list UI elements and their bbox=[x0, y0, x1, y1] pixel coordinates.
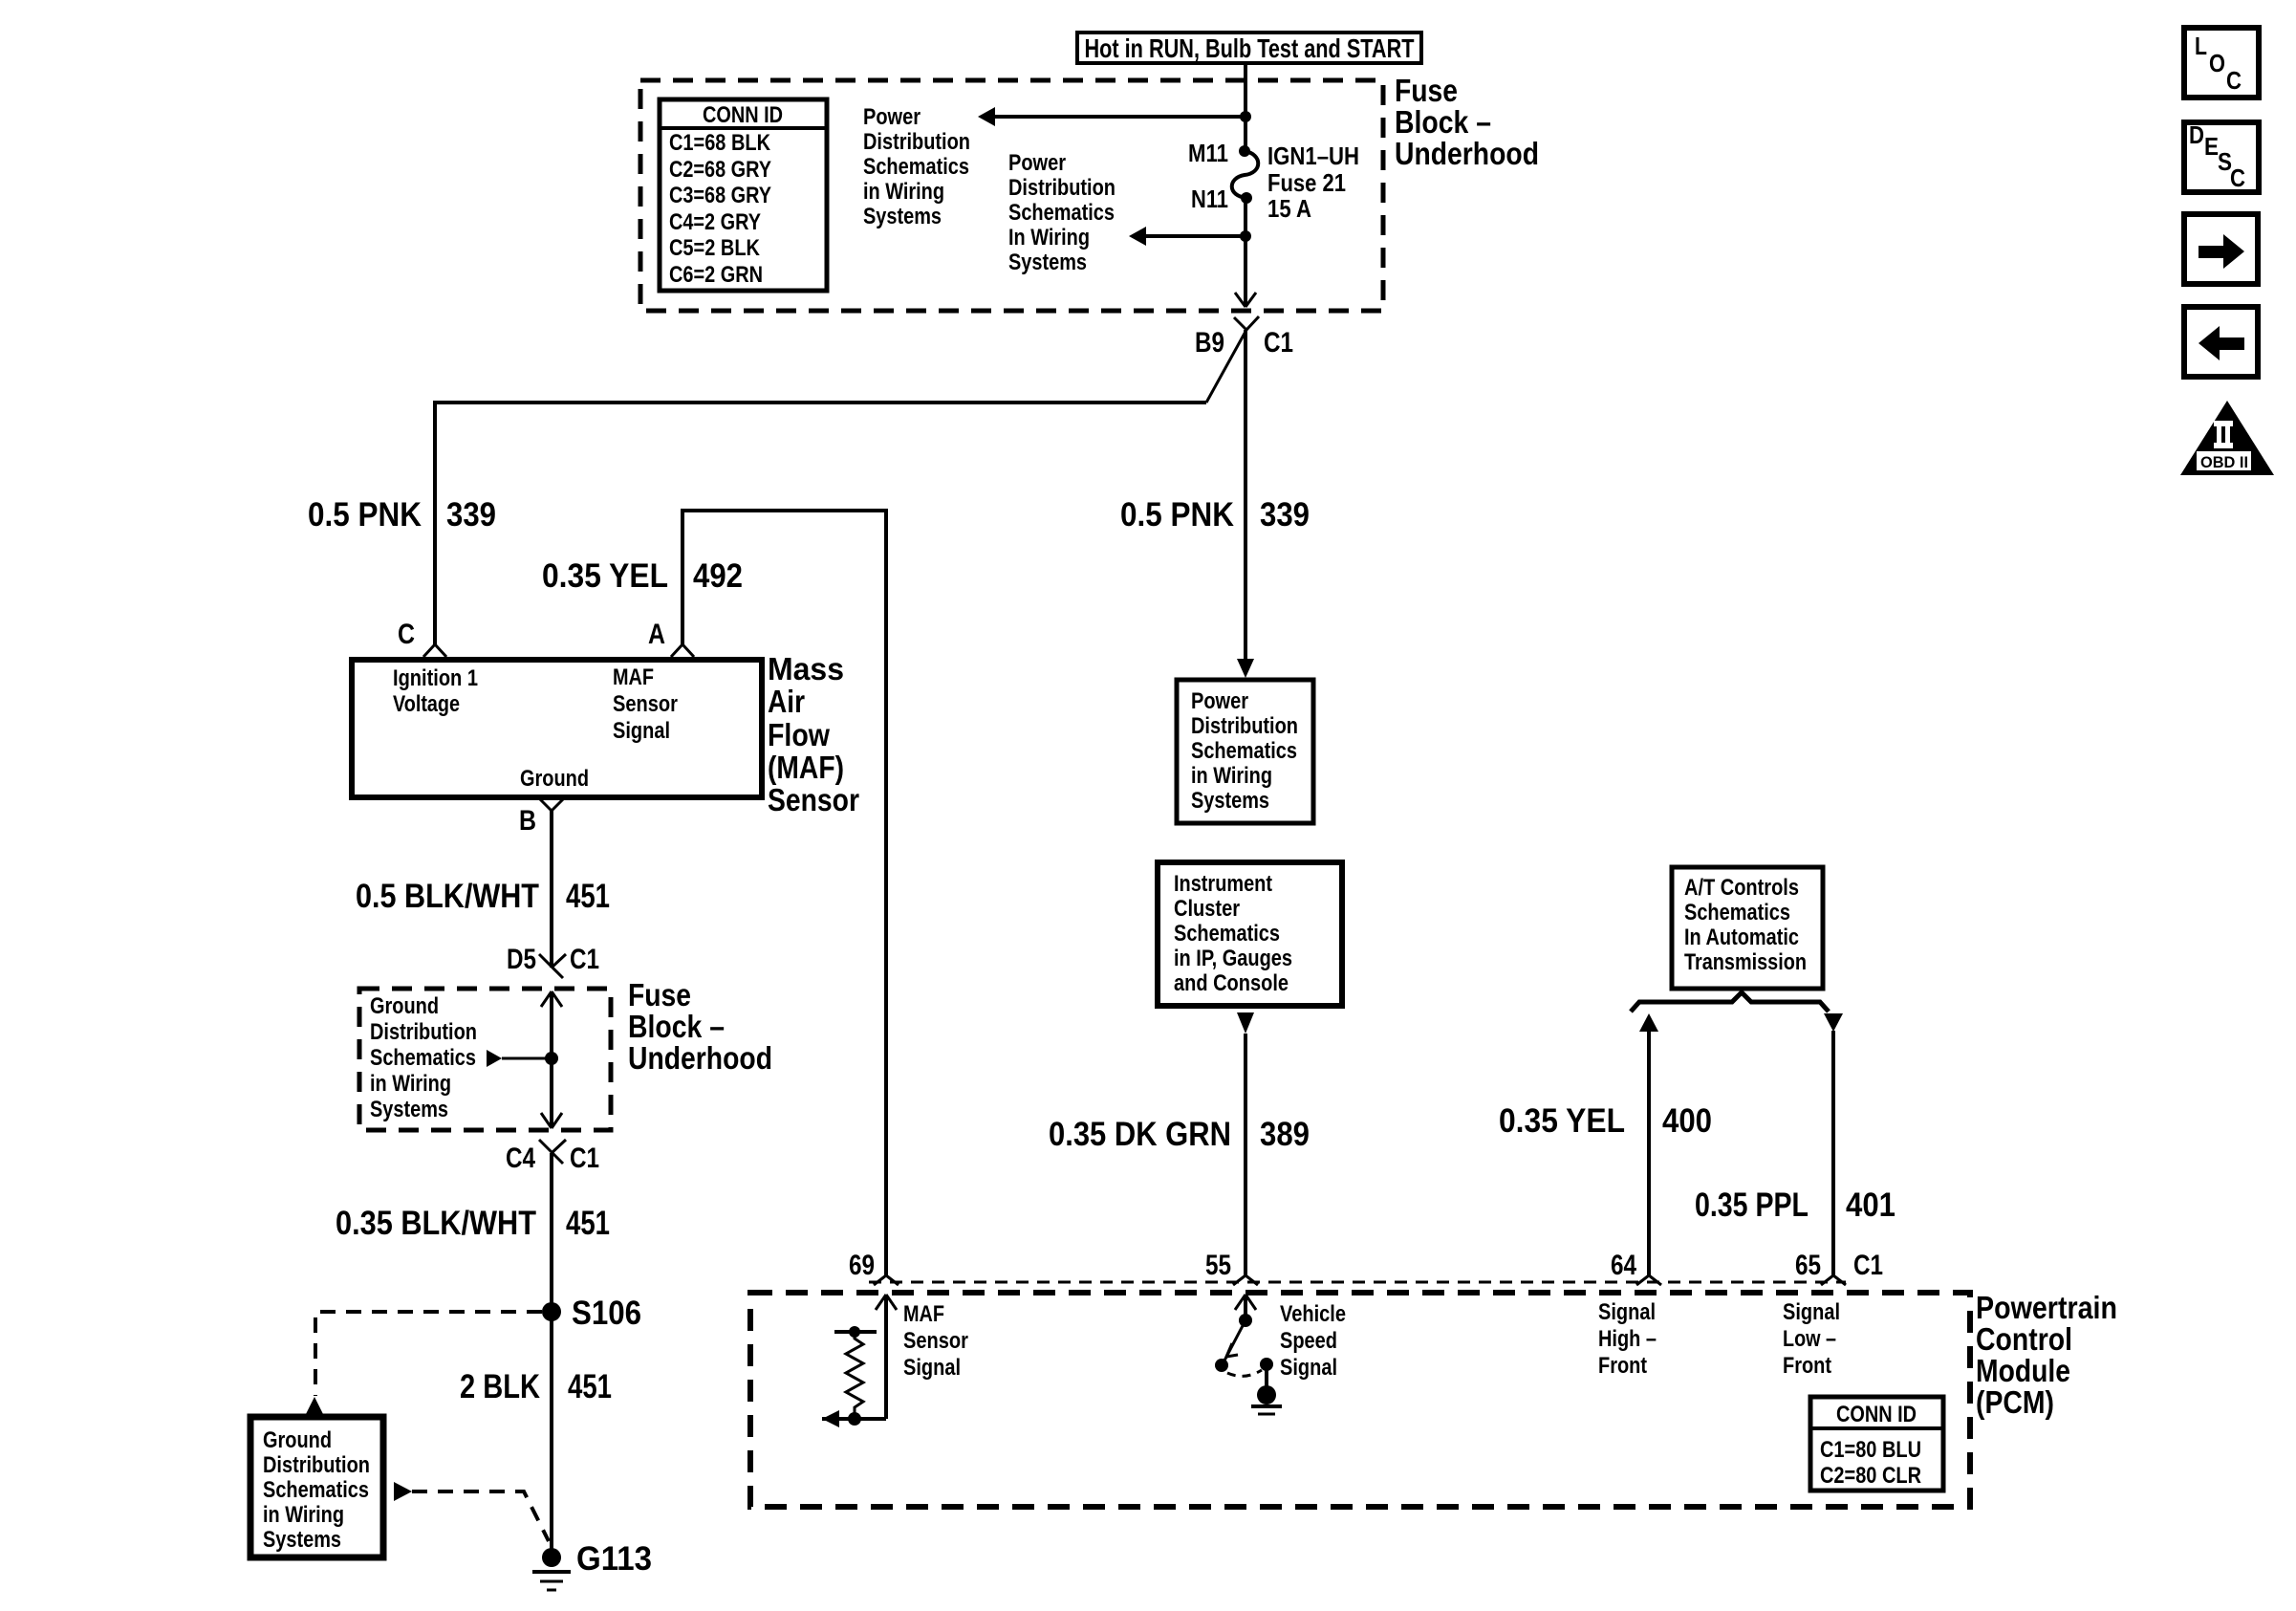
CONN ID table (fuse block) bbox=[660, 99, 827, 291]
svg-text:A/T Controls: A/T Controls bbox=[1684, 875, 1799, 901]
connector B9 / C1 bbox=[1195, 316, 1293, 403]
svg-text:Ground: Ground bbox=[520, 766, 589, 792]
svg-text:Power: Power bbox=[1191, 688, 1248, 714]
svg-text:C1=68 BLK: C1=68 BLK bbox=[669, 130, 771, 156]
label: Fuse Block - Underhood bbox=[1395, 73, 1539, 171]
label: 0.5 PNK 339 (middle) bbox=[1120, 496, 1310, 533]
wire: main vertical from Hot box through fuse block bbox=[1244, 63, 1247, 307]
svg-text:0.5 PNK: 0.5 PNK bbox=[1120, 496, 1234, 533]
svg-text:0.35 BLK/WHT: 0.35 BLK/WHT bbox=[336, 1205, 536, 1242]
svg-text:Schematics: Schematics bbox=[863, 154, 969, 180]
svg-text:65: 65 bbox=[1795, 1250, 1821, 1281]
svg-text:C3=68 GRY: C3=68 GRY bbox=[669, 183, 771, 208]
svg-text:492: 492 bbox=[693, 557, 743, 595]
svg-text:Power: Power bbox=[1008, 150, 1066, 176]
svg-text:Distribution: Distribution bbox=[863, 129, 970, 155]
svg-text:L: L bbox=[2195, 32, 2207, 60]
pin 65 connector chevron + C1 bbox=[1795, 1250, 1883, 1285]
svg-text:Schematics: Schematics bbox=[1008, 200, 1115, 226]
text: Vehicle Speed Signal bbox=[1280, 1301, 1346, 1381]
svg-text:Distribution: Distribution bbox=[263, 1452, 370, 1478]
svg-text:M11: M11 bbox=[1188, 139, 1228, 167]
svg-text:339: 339 bbox=[1260, 496, 1310, 533]
svg-text:Flow: Flow bbox=[768, 717, 830, 752]
svg-text:Distribution: Distribution bbox=[370, 1019, 477, 1045]
label: 0.35 YEL 492 bbox=[542, 557, 743, 595]
pin C connector chevron bbox=[398, 619, 446, 657]
wire: 0.5 BLK/WHT 451 from B to D5 bbox=[550, 811, 553, 968]
svg-text:D5: D5 bbox=[507, 944, 536, 975]
svg-text:OBD II: OBD II bbox=[2200, 453, 2248, 471]
label: IGN1-UH Fuse 21 15 A bbox=[1267, 142, 1359, 223]
svg-text:Signal: Signal bbox=[613, 718, 670, 744]
svg-text:Fuse: Fuse bbox=[1395, 73, 1458, 108]
svg-text:Signal: Signal bbox=[903, 1355, 961, 1381]
svg-text:Signal: Signal bbox=[1598, 1299, 1656, 1325]
svg-text:Signal: Signal bbox=[1280, 1355, 1337, 1381]
fuse block underhood dashed box (lower) bbox=[359, 989, 611, 1130]
wire: 0.35 YEL 400 pin 64 bbox=[1639, 1013, 1658, 1275]
MAF sensor signal input (pin 69): open arrow, wire, resistor bbox=[855, 1295, 897, 1419]
svg-text:69: 69 bbox=[849, 1250, 875, 1281]
svg-text:Schematics: Schematics bbox=[263, 1477, 369, 1503]
svg-text:0.35 YEL: 0.35 YEL bbox=[1499, 1102, 1625, 1140]
svg-text:B: B bbox=[519, 805, 536, 837]
svg-text:C2=68 GRY: C2=68 GRY bbox=[669, 157, 771, 183]
resistor (MAF pull-up) bbox=[822, 1326, 877, 1427]
svg-text:A: A bbox=[648, 619, 665, 650]
svg-text:15 A: 15 A bbox=[1267, 194, 1311, 223]
wire: arrow to Power Distribution (lower) bbox=[1129, 227, 1251, 246]
svg-text:451: 451 bbox=[566, 878, 610, 915]
svg-text:339: 339 bbox=[446, 496, 496, 533]
MAF sensor box bbox=[352, 660, 762, 797]
fuse IGN1-UH Fuse 21 15A bbox=[1232, 145, 1259, 204]
svg-text:C6=2 GRN: C6=2 GRN bbox=[669, 262, 763, 288]
PCM connector thin dashed line bbox=[869, 1281, 1846, 1284]
svg-text:B9: B9 bbox=[1195, 327, 1224, 359]
text: Signal Low - Front bbox=[1783, 1299, 1840, 1379]
label: 0.5 PNK 339 (left) bbox=[308, 496, 496, 533]
svg-text:C5=2 BLK: C5=2 BLK bbox=[669, 235, 761, 261]
fuse block underhood dashed box bbox=[640, 80, 1383, 311]
text: Power Distribution Schematics In Wiring Systems (right) bbox=[1008, 150, 1116, 275]
icon: DESC box bbox=[2184, 120, 2259, 192]
svg-text:Sensor: Sensor bbox=[613, 691, 678, 717]
svg-text:Power: Power bbox=[863, 104, 921, 130]
pin 55 connector chevron bbox=[1205, 1250, 1258, 1285]
svg-text:Schematics: Schematics bbox=[1684, 900, 1790, 925]
open arrowhead at fuse block exit bbox=[1235, 293, 1256, 307]
text: MAF Sensor Signal (PCM) bbox=[903, 1301, 968, 1381]
Ground Distribution Schematics box (bottom left) bbox=[250, 1417, 383, 1557]
label: 0.35 BLK/WHT 451 bbox=[336, 1205, 610, 1242]
wire: arrow to Power Distribution (upper) bbox=[978, 107, 1251, 126]
svg-text:Systems: Systems bbox=[863, 204, 942, 229]
wire: 0.35 YEL 492 from A up and over to pin 69 bbox=[682, 511, 886, 1275]
svg-text:C1: C1 bbox=[570, 1143, 599, 1174]
svg-text:C: C bbox=[2226, 66, 2242, 95]
text: Signal High - Front bbox=[1598, 1299, 1657, 1379]
svg-text:Front: Front bbox=[1598, 1353, 1647, 1379]
pin 69 connector chevron bbox=[849, 1250, 899, 1285]
label: Fuse Block - Underhood (lower) bbox=[628, 977, 772, 1076]
svg-text:Control: Control bbox=[1976, 1321, 2072, 1357]
svg-text:and Console: and Console bbox=[1174, 970, 1289, 996]
wire: 0.35 BLK/WHT 451 from C4 to S106 bbox=[550, 1153, 553, 1557]
svg-text:Ignition 1: Ignition 1 bbox=[393, 665, 478, 691]
svg-text:in Wiring: in Wiring bbox=[370, 1071, 451, 1097]
label: Mass Air Flow (MAF) Sensor bbox=[768, 651, 859, 817]
svg-text:0.35 PPL: 0.35 PPL bbox=[1695, 1186, 1809, 1224]
wire: 0.35 DK GRN 389 from cluster to pin 55 bbox=[1237, 1012, 1254, 1275]
svg-text:(MAF): (MAF) bbox=[768, 750, 844, 785]
svg-text:0.35 YEL: 0.35 YEL bbox=[542, 557, 668, 595]
svg-text:55: 55 bbox=[1205, 1250, 1231, 1281]
svg-text:O: O bbox=[2209, 49, 2225, 77]
svg-text:in Wiring: in Wiring bbox=[863, 179, 944, 205]
reference arrow to ground distribution (inside fuse block) bbox=[487, 1050, 558, 1067]
CONN ID table (PCM) bbox=[1810, 1397, 1943, 1491]
icon: back arrow box bbox=[2184, 307, 2258, 377]
pin 64 connector chevron bbox=[1611, 1250, 1661, 1285]
label: 0.35 DK GRN 389 bbox=[1049, 1116, 1310, 1153]
svg-text:451: 451 bbox=[568, 1368, 612, 1405]
svg-text:in Wiring: in Wiring bbox=[263, 1502, 344, 1528]
svg-text:Sensor: Sensor bbox=[903, 1328, 968, 1354]
wire: 0.35 PPL 401 pin 65 bbox=[1824, 1013, 1843, 1275]
svg-text:C1=80 BLU: C1=80 BLU bbox=[1820, 1437, 1921, 1463]
icon: forward arrow box bbox=[2184, 214, 2258, 284]
svg-text:C: C bbox=[398, 619, 415, 650]
svg-text:MAF: MAF bbox=[613, 664, 654, 690]
svg-text:Fuse 21: Fuse 21 bbox=[1267, 168, 1346, 197]
svg-text:Distribution: Distribution bbox=[1191, 713, 1298, 739]
wire: 0.5 PNK 339 branch to MAF (horizontal + vertical) bbox=[435, 403, 1206, 644]
label: 0.35 PPL 401 bbox=[1695, 1186, 1895, 1224]
svg-text:C1: C1 bbox=[570, 944, 599, 975]
connector D5 / C1 bbox=[507, 944, 599, 978]
svg-text:451: 451 bbox=[566, 1205, 610, 1242]
svg-text:389: 389 bbox=[1260, 1116, 1310, 1153]
svg-text:Speed: Speed bbox=[1280, 1328, 1337, 1354]
A/T Controls Schematics box bbox=[1672, 867, 1823, 989]
svg-text:IGN1–UH: IGN1–UH bbox=[1267, 142, 1359, 170]
svg-text:Schematics: Schematics bbox=[370, 1045, 476, 1071]
svg-text:MAF: MAF bbox=[903, 1301, 944, 1327]
svg-text:Systems: Systems bbox=[370, 1097, 448, 1122]
svg-text:Powertrain: Powertrain bbox=[1976, 1290, 2117, 1325]
Instrument Cluster Schematics box bbox=[1158, 862, 1342, 1006]
splice S106 bbox=[542, 1295, 641, 1332]
svg-text:Systems: Systems bbox=[263, 1527, 341, 1553]
svg-text:2 BLK: 2 BLK bbox=[460, 1368, 540, 1405]
label: 2 BLK 451 bbox=[460, 1368, 612, 1405]
svg-text:0.5 BLK/WHT: 0.5 BLK/WHT bbox=[356, 878, 539, 915]
pin B connector chevron bbox=[519, 799, 563, 837]
svg-text:(PCM): (PCM) bbox=[1976, 1384, 2054, 1420]
icon: LOC box bbox=[2184, 28, 2259, 98]
label: 0.35 YEL 400 bbox=[1499, 1102, 1712, 1140]
PCM dashed box bbox=[750, 1293, 1970, 1507]
svg-text:0.5 PNK: 0.5 PNK bbox=[308, 496, 422, 533]
svg-text:S106: S106 bbox=[572, 1295, 641, 1332]
Power Distribution Schematics box (middle) bbox=[1177, 680, 1313, 823]
vehicle speed signal input (pin 55): open arrow + switch bbox=[1215, 1295, 1282, 1414]
svg-text:64: 64 bbox=[1611, 1250, 1636, 1281]
svg-text:E: E bbox=[2204, 132, 2219, 161]
svg-text:Low –: Low – bbox=[1783, 1326, 1836, 1352]
svg-text:Block –: Block – bbox=[628, 1009, 725, 1044]
svg-text:CONN ID: CONN ID bbox=[1836, 1402, 1917, 1427]
svg-text:Sensor: Sensor bbox=[768, 782, 859, 817]
svg-text:in IP, Gauges: in IP, Gauges bbox=[1174, 946, 1292, 971]
svg-text:C4=2 GRY: C4=2 GRY bbox=[669, 209, 761, 235]
svg-text:400: 400 bbox=[1662, 1102, 1712, 1140]
text: Power Distribution Schematics in Wiring Systems (left) bbox=[863, 104, 970, 229]
svg-text:Module: Module bbox=[1976, 1353, 2070, 1388]
svg-text:Ground: Ground bbox=[370, 993, 439, 1019]
svg-text:Schematics: Schematics bbox=[1191, 738, 1297, 764]
label: 0.5 BLK/WHT 451 bbox=[356, 878, 610, 915]
svg-text:In Wiring: In Wiring bbox=[1008, 225, 1090, 250]
svg-text:Mass: Mass bbox=[768, 651, 844, 686]
svg-text:Vehicle: Vehicle bbox=[1280, 1301, 1346, 1327]
pin A connector chevron bbox=[648, 619, 694, 657]
svg-text:Fuse: Fuse bbox=[628, 977, 691, 1012]
svg-text:Signal: Signal bbox=[1783, 1299, 1840, 1325]
svg-text:Systems: Systems bbox=[1008, 250, 1087, 275]
svg-text:Systems: Systems bbox=[1191, 788, 1269, 814]
svg-text:0.35 DK GRN: 0.35 DK GRN bbox=[1049, 1116, 1231, 1153]
svg-text:Front: Front bbox=[1783, 1353, 1831, 1379]
dashed reference from box to G113 wire bbox=[394, 1482, 549, 1541]
svg-text:In Automatic: In Automatic bbox=[1684, 925, 1799, 950]
svg-text:Distribution: Distribution bbox=[1008, 175, 1116, 201]
svg-text:C1: C1 bbox=[1853, 1250, 1883, 1281]
text: Ground Distribution Schematics in Wiring Systems (in fuse block) bbox=[370, 993, 477, 1122]
wire: 0.5 PNK 339 middle vertical bbox=[1237, 330, 1254, 678]
svg-text:Block –: Block – bbox=[1395, 104, 1491, 140]
svg-text:Voltage: Voltage bbox=[393, 691, 460, 717]
label: M11 N11 bbox=[1188, 139, 1228, 213]
svg-text:CONN ID: CONN ID bbox=[703, 102, 783, 128]
svg-text:D: D bbox=[2189, 120, 2204, 149]
svg-text:G113: G113 bbox=[576, 1540, 652, 1578]
svg-text:C4: C4 bbox=[506, 1143, 535, 1174]
dashed reference from S106 bbox=[304, 1312, 542, 1418]
ground G113 bbox=[532, 1540, 652, 1590]
label box: Hot in RUN bbox=[1077, 33, 1421, 63]
brace under A/T box bbox=[1631, 992, 1829, 1012]
svg-text:Underhood: Underhood bbox=[628, 1040, 772, 1076]
svg-text:Underhood: Underhood bbox=[1395, 136, 1539, 171]
connector C4 / C1 bbox=[506, 1140, 599, 1174]
svg-text:Ground: Ground bbox=[263, 1427, 332, 1453]
svg-text:C2=80 CLR: C2=80 CLR bbox=[1820, 1463, 1921, 1489]
svg-text:N11: N11 bbox=[1191, 185, 1228, 213]
wire through lower fuse block with open arrows bbox=[541, 991, 562, 1128]
svg-text:Transmission: Transmission bbox=[1684, 949, 1807, 975]
svg-text:in Wiring: in Wiring bbox=[1191, 763, 1272, 789]
svg-text:C1: C1 bbox=[1264, 327, 1293, 359]
icon: OBD II triangle bbox=[2180, 401, 2274, 475]
svg-text:Air: Air bbox=[768, 684, 805, 719]
svg-text:Cluster: Cluster bbox=[1174, 896, 1240, 922]
svg-text:Schematics: Schematics bbox=[1174, 921, 1280, 947]
svg-text:C: C bbox=[2230, 163, 2245, 192]
svg-text:Instrument: Instrument bbox=[1174, 871, 1272, 897]
svg-text:High –: High – bbox=[1598, 1326, 1657, 1352]
svg-text:401: 401 bbox=[1846, 1186, 1895, 1224]
svg-text:Hot in RUN, Bulb Test and STAR: Hot in RUN, Bulb Test and START bbox=[1085, 33, 1415, 63]
label: Powertrain Control Module (PCM) bbox=[1976, 1290, 2117, 1420]
